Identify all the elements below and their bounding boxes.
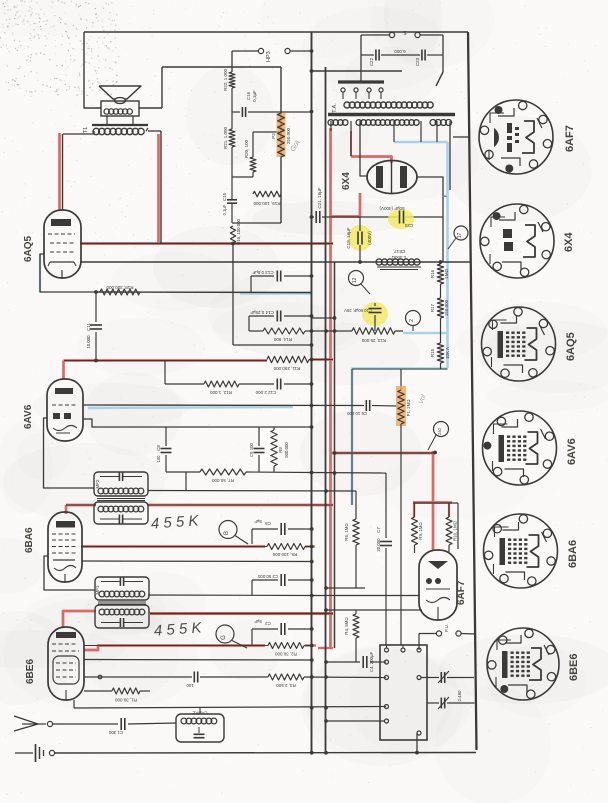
svg-text:R17: R17 (430, 303, 435, 312)
wire red 6BE6 feed (63, 611, 333, 648)
tube 6BA6 (48, 512, 82, 582)
svg-text:F: F (443, 194, 448, 197)
svg-text:2.480: 2.480 (457, 690, 462, 702)
svg-text:4 5 5 K: 4 5 5 K (150, 512, 200, 532)
wire HP terminal feed (232, 49, 313, 53)
transformer TA secondaries (328, 120, 452, 126)
wire choke to R16 (421, 217, 470, 262)
svg-text:C6 10.000: C6 10.000 (346, 411, 366, 416)
switch S (389, 29, 420, 38)
wire 6BE6 grid row (84, 675, 386, 679)
svg-text:C7: C7 (376, 527, 381, 533)
svg-text:R1, 30.000: R1, 30.000 (115, 698, 138, 703)
wire red 6BE6 plate (84, 646, 316, 651)
svg-text:R11, 250.000: R11, 250.000 (273, 366, 300, 371)
svg-text:R22, 1.000: R22, 1.000 (223, 69, 228, 92)
svg-text:0,1µF: 0,1µF (252, 90, 257, 102)
switch block (380, 645, 427, 753)
wire T1 right leg (160, 131, 162, 244)
svg-text:R3, 2.500: R3, 2.500 (276, 683, 296, 688)
capacitor C9 (249, 427, 265, 472)
svg-text:C23: C23 (415, 57, 420, 66)
svg-text:5µF: 5µF (254, 519, 262, 524)
svg-text:100: 100 (186, 683, 194, 688)
wire blue heater trace (352, 142, 448, 505)
capacitor C5 (252, 519, 314, 544)
wire top rail (84, 31, 468, 33)
capacitor C14 (249, 310, 313, 331)
svg-text:(400V): (400V) (367, 231, 372, 245)
svg-text:R12, 1.000: R12, 1.000 (210, 390, 233, 395)
wire 6X4 plate right (417, 177, 443, 217)
wire plate feed row (333, 451, 435, 455)
wire secondary plate lead (351, 121, 368, 176)
wire 6AQ5 plate out (81, 243, 333, 245)
resistor R15 (430, 343, 450, 369)
resistor R1 (84, 688, 150, 703)
svg-text:250.000: 250.000 (286, 127, 291, 144)
capacitor C23 (394, 49, 443, 66)
capacitor C6 (346, 400, 369, 416)
transformer MF1 (95, 577, 149, 628)
svg-text:T1: T1 (83, 127, 89, 133)
wire 6BA6 diode row (82, 560, 314, 564)
ground (15, 744, 55, 762)
svg-text:10K A: 10K A (445, 347, 450, 359)
wire R6 bottom row (324, 586, 365, 590)
svg-text:R8: R8 (278, 447, 283, 453)
capacitor C8 (156, 427, 172, 472)
svg-text:1.300Ω: 1.300Ω (391, 255, 406, 260)
wire bus B (325, 67, 327, 753)
wire red IF B+ 6BA6 (66, 505, 333, 514)
wire C4 row (324, 660, 386, 664)
svg-text:HP3: HP3 (266, 51, 272, 62)
node test point 2 (406, 311, 421, 332)
wire red 6BA6 plate (81, 545, 315, 548)
svg-text:6AF7: 6AF7 (456, 580, 467, 605)
resistor R5 (81, 544, 314, 558)
svg-text:C18, 16µF: C18, 16µF (346, 227, 351, 248)
capacitor C15 (222, 192, 237, 215)
socket 6BA6 (484, 514, 558, 588)
svg-text:C5: C5 (265, 521, 271, 526)
svg-text:MF2: MF2 (95, 479, 100, 488)
svg-text:6AV6: 6AV6 (23, 404, 34, 429)
svg-text:500.000: 500.000 (284, 442, 289, 458)
svg-text:R10, 1MΩ: R10, 1MΩ (453, 520, 458, 541)
svg-text:1MΩ: 1MΩ (444, 269, 449, 279)
svg-text:G: G (221, 635, 227, 640)
wire mains row (310, 35, 443, 86)
svg-text:C3 50.000: C3 50.000 (257, 574, 278, 579)
node circled B (219, 521, 248, 545)
svg-text:20.000: 20.000 (376, 538, 381, 552)
tube 6AV6 (47, 379, 83, 441)
resistor R17 (430, 284, 449, 343)
wire 6BE6 cathode bottom (74, 700, 386, 710)
node test point 17 (448, 226, 468, 249)
wire MF2 secondary (66, 504, 333, 506)
capacitor C12 (255, 379, 313, 396)
svg-text:6BE6: 6BE6 (25, 659, 36, 684)
svg-text:R14, 900: R14, 900 (273, 337, 292, 342)
svg-text:B: B (224, 531, 230, 535)
svg-text:P1, 2MΩ: P1, 2MΩ (406, 399, 411, 417)
resistor R12 (165, 361, 274, 396)
transformer TA core (328, 113, 455, 116)
speaker voice coil (101, 101, 162, 116)
capacitor C20 (379, 206, 414, 229)
wire 6AQ5 screen row (81, 261, 470, 263)
wire chassis border (468, 32, 477, 750)
resistor R22 (223, 69, 235, 92)
wire 6AQ5 cathode (40, 254, 312, 293)
svg-text:6AF7: 6AF7 (564, 125, 576, 152)
svg-text:CE17,: CE17, (393, 249, 406, 254)
svg-text:6.000: 6.000 (394, 49, 406, 54)
svg-text:6X4: 6X4 (563, 232, 575, 252)
wire y345 stub (296, 343, 313, 347)
wire grid return row (312, 316, 337, 320)
wire heater stubs (394, 121, 469, 197)
potentiometer P2 (271, 113, 291, 157)
capacitor C13 (251, 270, 313, 293)
svg-text:C12 2.000: C12 2.000 (255, 390, 276, 395)
resistor R13 (352, 328, 395, 343)
wire grid leak row (148, 489, 356, 493)
wire bus B to box (324, 719, 384, 723)
svg-text:C8: C8 (156, 445, 161, 451)
wire secondary HT lead (330, 121, 332, 131)
capacitor C1b (186, 672, 198, 689)
svg-text:4 5 5 K: 4 5 5 K (153, 619, 203, 639)
resistor R16b (230, 218, 241, 244)
wire red AF plate feed (330, 451, 452, 551)
svg-text:6AQ5: 6AQ5 (23, 235, 34, 262)
tube 6AQ5 (44, 210, 81, 278)
terminal HP (258, 48, 290, 53)
resistor R14 (249, 328, 313, 342)
wire speaker loop (84, 32, 101, 108)
capacitor C22 (361, 50, 420, 67)
wire 6BA6 cathode leg (44, 556, 95, 590)
svg-text:6AV6: 6AV6 (566, 438, 578, 465)
wire 6BE6 screen row (84, 658, 314, 662)
svg-text:R5, 100.000: R5, 100.000 (272, 552, 297, 557)
wire bus A (311, 32, 313, 753)
svg-text:0,1µF: 0,1µF (222, 204, 227, 215)
antenna (14, 716, 53, 731)
wire MF1 secondary (150, 613, 333, 615)
socket 6AV6 (483, 411, 557, 485)
svg-text:10.000: 10.000 (86, 335, 91, 349)
resistor R4 (344, 610, 359, 662)
capacitor C4 (363, 652, 374, 673)
resistor R6 (344, 491, 359, 588)
capacitor C3 (252, 574, 314, 595)
svg-text:C9 100: C9 100 (249, 442, 254, 456)
ground chassis bar (338, 71, 384, 82)
svg-text:R2, 30.000: R2, 30.000 (275, 652, 298, 657)
resistor R9 (412, 503, 424, 553)
resistor R11 (64, 356, 333, 371)
svg-text:R6, 1MΩ: R6, 1MΩ (344, 523, 349, 541)
capacitor C18 (346, 217, 372, 264)
svg-text:2: 2 (409, 319, 415, 322)
wire 6AQ5 plate lead (62, 134, 64, 210)
svg-text:T.A.: T.A. (332, 103, 338, 113)
node test point 12 (349, 271, 371, 295)
wire blue AVC trace (40, 254, 312, 408)
wire red 6X4 cathode (330, 131, 392, 217)
svg-text:240: 240 (437, 427, 442, 435)
tube 6BE6 (48, 627, 84, 700)
svg-text:R4, 5MΩ: R4, 5MΩ (344, 617, 349, 635)
svg-text:6AQ5: 6AQ5 (565, 332, 577, 361)
svg-text:C13 0,5µF: C13 0,5µF (252, 270, 273, 275)
svg-text:R15: R15 (430, 348, 435, 357)
wire grid 6AF7 row (324, 608, 422, 612)
socket 6AQ5 (482, 307, 556, 381)
transformer TA primary (341, 88, 433, 108)
node circled G (216, 625, 247, 648)
svg-text:C10 50µF, 25V: C10 50µF, 25V (344, 308, 372, 313)
speaker HP (99, 86, 141, 104)
capacitor C2 (252, 619, 314, 645)
svg-text:C2: C2 (265, 621, 271, 626)
svg-text:C11: C11 (86, 323, 91, 331)
svg-text:R7, 50.000: R7, 50.000 (212, 478, 235, 483)
svg-text:12: 12 (352, 278, 358, 284)
resistor R16 (430, 260, 449, 284)
resistor R7 (200, 469, 246, 483)
wire 6AV6 diode row (83, 419, 313, 429)
wire AVC row (83, 404, 398, 408)
wire ground rail (55, 751, 476, 755)
potentiometer P1 (396, 369, 428, 645)
tube 6X4 (367, 160, 417, 194)
svg-text:5µF: 5µF (254, 619, 262, 624)
wire screen row 330 (312, 329, 404, 333)
trimmer CA (421, 671, 474, 683)
svg-text:C16: C16 (246, 91, 251, 100)
svg-text:C14 0,25µF: C14 0,25µF (250, 310, 274, 315)
svg-text:6BA6: 6BA6 (567, 540, 579, 568)
svg-text:150.000: 150.000 (444, 299, 449, 316)
svg-text:C22: C22 (369, 57, 374, 66)
transformer MF2 (94, 472, 148, 524)
wire red output transformer right leg (80, 134, 333, 244)
inductor antenna coil (176, 708, 224, 742)
capacitor C10 (344, 302, 388, 331)
resistor R10 (413, 503, 458, 552)
svg-text:6X4: 6X4 (341, 172, 352, 190)
svg-text:6BE6: 6BE6 (568, 653, 580, 681)
node test point 240 (428, 422, 449, 455)
wire filter row (310, 215, 443, 219)
wire PU row (419, 624, 475, 650)
wire 6AV6 cathode leg (44, 418, 95, 488)
svg-text:17: 17 (457, 233, 463, 239)
svg-text:MF1: MF1 (95, 585, 100, 594)
wire AF takeoff (148, 594, 419, 598)
svg-text:100: 100 (156, 455, 161, 463)
wire R7 row (166, 471, 386, 490)
svg-text:C1 300: C1 300 (108, 730, 123, 735)
wire red B+ bus vertical (329, 128, 332, 648)
socket 6AF7 (479, 100, 553, 174)
resistor R21 (223, 127, 235, 150)
capacitor C7 (376, 473, 392, 645)
inductor CE17 choke (376, 249, 421, 270)
resistor R19 (253, 191, 281, 206)
svg-text:R9, 1MΩ: R9, 1MΩ (418, 522, 423, 540)
resistor R8 (271, 427, 289, 472)
svg-text:P2: P2 (271, 133, 276, 139)
svg-text:6BA6: 6BA6 (24, 527, 35, 553)
svg-text:R20, 100: R20, 100 (244, 139, 249, 158)
socket 6X4 (480, 204, 554, 278)
svg-text:R16, 100.000: R16, 100.000 (236, 218, 241, 244)
tube 6AF7 (419, 550, 457, 620)
transformer T1 (63, 116, 161, 135)
svg-text:C4, 200µF: C4, 200µF (369, 652, 374, 673)
resistor R18 (100, 285, 140, 295)
svg-text:R21, 1.000: R21, 1.000 (223, 127, 228, 150)
svg-text:R13, 25.000: R13, 25.000 (361, 338, 386, 343)
trimmer CO (427, 690, 475, 709)
wire bus C (334, 262, 336, 648)
resistor R2 (84, 643, 314, 657)
svg-text:50µF (400V): 50µF (400V) (379, 206, 405, 211)
resistor R3 (268, 674, 304, 688)
wire screen branch (231, 242, 311, 345)
capacitor C16 (242, 90, 257, 117)
socket 6BE6 (487, 628, 559, 700)
wire heater return (352, 369, 448, 505)
wire red B+ to output transformer (58, 133, 61, 211)
capacitor C11 (86, 290, 102, 362)
resistor R20 (244, 139, 256, 172)
svg-text:R18, 300.000: R18, 300.000 (106, 285, 134, 290)
capacitor C21 (316, 187, 322, 223)
svg-text:C15: C15 (222, 192, 227, 201)
svg-text:C21, 16µF: C21, 16µF (317, 187, 322, 208)
svg-text:P.U.: P.U. (444, 624, 449, 632)
svg-text:C20: C20 (404, 223, 413, 228)
svg-text:R16: R16 (430, 269, 435, 278)
svg-text:R19, 100.000: R19, 100.000 (253, 201, 281, 206)
node tone block frame (162, 51, 313, 223)
capacitor C1 (53, 718, 176, 735)
wire red screen feed R11 (64, 360, 334, 380)
